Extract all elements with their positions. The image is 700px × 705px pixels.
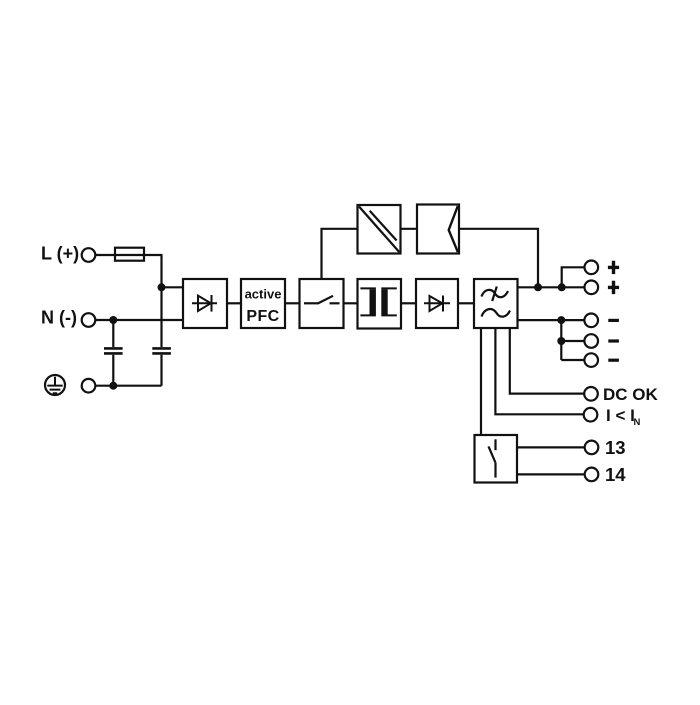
transformer windings (360, 288, 396, 315)
wire minus rail (518, 319, 585, 321)
earth ground symbol (45, 375, 65, 395)
transformer block box (358, 279, 402, 329)
wire L junction to rectifier (162, 286, 184, 288)
wire transformer to diode (401, 302, 416, 304)
capacitor C2 (152, 348, 171, 353)
terminal minus 3 (584, 353, 598, 367)
wire plus upper branch (562, 267, 584, 287)
svg-text:PFC: PFC (246, 308, 279, 325)
svg-text:L (+): L (+) (41, 243, 79, 263)
dc/dc converter feedback box (358, 205, 401, 254)
active PFC label (245, 287, 282, 325)
svg-text:active: active (245, 287, 282, 302)
plus sign lower (608, 281, 619, 294)
fuse F1 (115, 248, 144, 261)
terminal N(-) circle (82, 313, 96, 327)
node minus junction 2 (557, 337, 565, 345)
relay contact block box (475, 435, 518, 483)
wire relay to 13 (517, 446, 584, 448)
relay contact symbol (489, 439, 496, 477)
wire plus rail (518, 286, 585, 288)
wire L to fuse (96, 254, 163, 256)
wire minus lower branch (561, 359, 584, 361)
terminal I less than In (584, 408, 598, 422)
minus sign 3 (608, 359, 619, 362)
wire rectifier to PFC (227, 302, 241, 304)
terminal plus lower (585, 281, 599, 295)
wire DC OK (510, 328, 584, 394)
svg-text:DC OK: DC OK (603, 385, 659, 404)
active PFC block box (241, 279, 285, 328)
wire I less than In (495, 328, 583, 414)
terminal PE circle (82, 379, 96, 393)
node minus junction 1 (557, 316, 565, 324)
output diode symbol (424, 296, 450, 312)
terminal L(+) circle (82, 248, 96, 262)
svg-text:13: 13 (605, 437, 626, 458)
label I less than In (606, 406, 641, 428)
svg-text:I < I: I < I (606, 406, 635, 425)
rectifier diode symbol (192, 295, 217, 312)
svg-text:N: N (634, 417, 641, 428)
terminal minus 2 (584, 334, 598, 348)
output filter block box (474, 279, 518, 328)
plus sign upper (608, 261, 619, 274)
minus sign 1 (608, 319, 619, 322)
svg-text:N (-): N (-) (41, 308, 77, 328)
node N junction (109, 316, 117, 324)
node ground junction (109, 382, 117, 390)
node plus branch junction (558, 283, 566, 291)
wire relay to 14 (517, 473, 584, 475)
wire ground bus (96, 385, 162, 387)
minus sign 2 (608, 339, 619, 342)
wire filter to relay (480, 328, 482, 435)
rectifier block box (183, 279, 227, 328)
wire minus middle branch (561, 340, 584, 342)
dc/dc converter diagonals (359, 207, 399, 253)
output diode block box (416, 279, 458, 328)
terminal plus upper (585, 261, 599, 275)
terminal 13 (585, 441, 599, 455)
regulator feedback box (417, 205, 459, 254)
wire between top boxes (401, 228, 418, 230)
node feedback junction (534, 283, 542, 291)
wire diode to filter (458, 302, 474, 304)
terminal 14 (585, 468, 599, 482)
wire PFC to switch (285, 302, 300, 304)
wire N to rectifier (96, 319, 183, 321)
wire regulator to output rail (459, 229, 538, 287)
wire switch top feedback (322, 229, 358, 279)
wire switch to transformer (344, 302, 358, 304)
terminal DC OK (584, 387, 598, 401)
filter bottom tilde (482, 309, 511, 317)
svg-text:14: 14 (605, 464, 626, 485)
node L-rectifier junction (158, 283, 166, 291)
wire minus vertical branch (560, 320, 562, 360)
regulator chevron symbol (449, 206, 458, 252)
capacitor C1 (104, 348, 123, 353)
terminal minus 1 (584, 314, 598, 328)
wire L drop vertical (160, 255, 162, 386)
switch (chopper) block box (300, 279, 344, 328)
switch symbol (304, 296, 340, 304)
wire N drop vertical (112, 320, 114, 386)
filter top tilde with slash (482, 287, 509, 302)
